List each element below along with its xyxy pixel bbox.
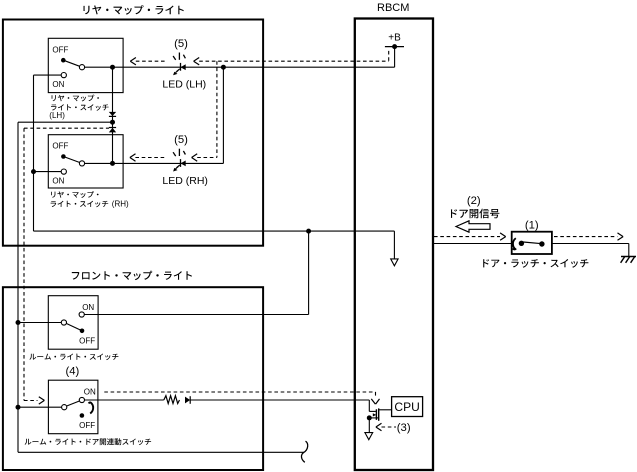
svg-text:LED (LH): LED (LH) — [162, 78, 206, 90]
svg-text:+B: +B — [388, 33, 401, 44]
svg-text:CPU: CPU — [394, 400, 419, 414]
svg-text:OFF: OFF — [52, 141, 68, 150]
svg-text:(4): (4) — [65, 365, 79, 377]
svg-text:OFF: OFF — [52, 45, 68, 54]
svg-text:(3): (3) — [397, 422, 411, 434]
svg-text:OFF: OFF — [79, 336, 95, 345]
svg-text:ON: ON — [82, 303, 94, 312]
svg-text:ON: ON — [52, 80, 64, 89]
svg-text:OFF: OFF — [79, 421, 95, 430]
svg-text:(LH): (LH) — [49, 111, 65, 120]
svg-text:(5): (5) — [174, 134, 188, 146]
svg-text:(2): (2) — [467, 195, 481, 207]
svg-text:(5): (5) — [174, 38, 188, 50]
svg-text:ON: ON — [52, 176, 64, 185]
svg-text:(RH): (RH) — [112, 200, 129, 209]
svg-text:ON: ON — [84, 387, 96, 396]
svg-text:RBCM: RBCM — [377, 2, 409, 14]
svg-text:LED (RH): LED (RH) — [162, 175, 208, 187]
svg-text:(1): (1) — [525, 219, 539, 231]
